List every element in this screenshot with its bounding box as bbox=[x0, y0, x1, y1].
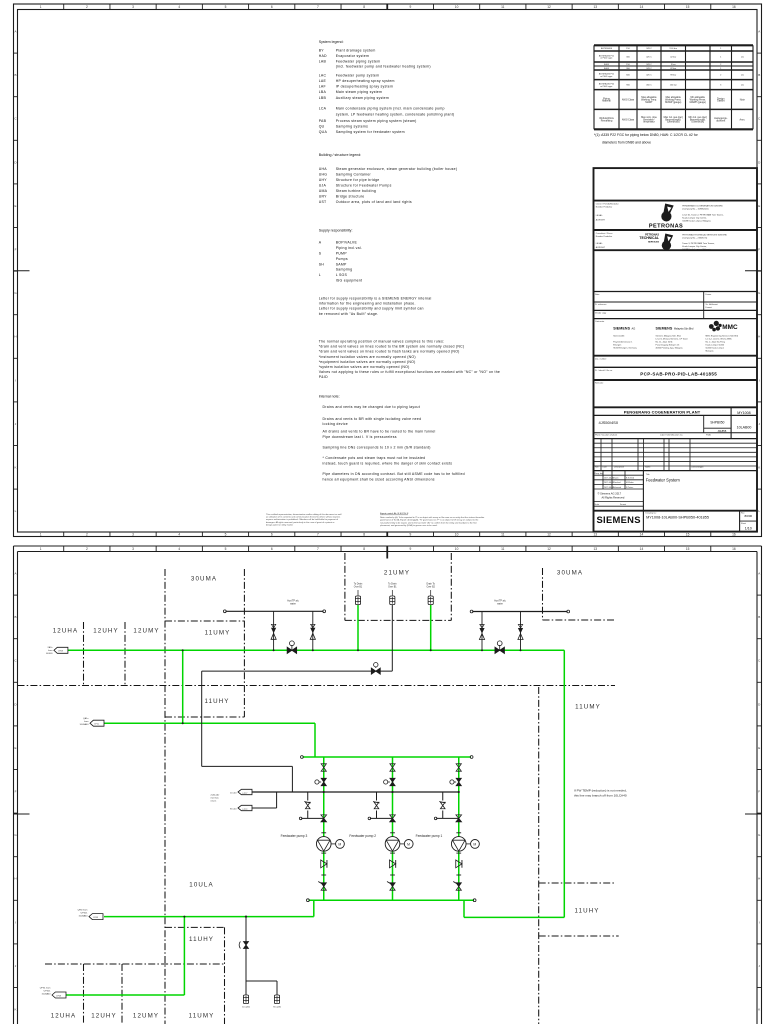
svg-text:9: 9 bbox=[409, 547, 411, 551]
svg-text:PENGERANG COGENERATION SDN BHD: PENGERANG COGENERATION SDN BHD bbox=[682, 205, 723, 208]
svg-text:LCA: LCA bbox=[319, 107, 327, 111]
svg-text:QA1x: QA1x bbox=[83, 717, 89, 720]
svg-text:F: F bbox=[758, 790, 760, 794]
svg-text:E: E bbox=[14, 204, 16, 208]
svg-text:PAB: PAB bbox=[319, 119, 327, 123]
svg-text:Checked/appr.: Checked/appr. bbox=[691, 467, 704, 469]
svg-text:K: K bbox=[14, 1008, 16, 1012]
svg-text:be removed with "As Built" sta: be removed with "As Built" stage. bbox=[319, 312, 379, 316]
svg-text:LAC: LAC bbox=[319, 73, 327, 77]
min-flow tap junction train 1 bbox=[458, 791, 460, 793]
svg-text:Remarking: Remarking bbox=[601, 120, 613, 123]
LP72 arrow label + line bbox=[238, 805, 252, 810]
svg-text:Malaysia: Malaysia bbox=[706, 351, 715, 353]
motor 2 bbox=[400, 843, 405, 845]
svg-text:E: E bbox=[758, 204, 760, 208]
svg-text:Nombor Pendaftar: Nombor Pendaftar bbox=[596, 235, 613, 238]
svg-text:M: M bbox=[338, 842, 341, 846]
svg-text:12: 12 bbox=[547, 5, 551, 9]
svg-text:temperatur: temperatur bbox=[643, 121, 655, 124]
svg-text:Owner / Pemilik/Berdaftar: Owner / Pemilik/Berdaftar bbox=[596, 203, 619, 206]
svg-text:SIEMENS: SIEMENS bbox=[613, 327, 630, 331]
svg-text:Sampling line DNs corresponds: Sampling line DNs corresponds to 10 x 2 … bbox=[323, 446, 431, 450]
flange below pump 3 bbox=[321, 852, 326, 854]
feedwater pump train 3 bbox=[323, 757, 325, 900]
svg-text:Kuala Lumpur 50450: Kuala Lumpur 50450 bbox=[706, 345, 725, 347]
svg-text:E: E bbox=[14, 746, 16, 750]
svg-text:12: 12 bbox=[547, 532, 551, 536]
svg-text:*drain and vent valves on line: *drain and vent valves on lines routed t… bbox=[319, 345, 465, 349]
svg-text:K.Peters: K.Peters bbox=[626, 486, 633, 489]
svg-text:UMA: UMA bbox=[319, 189, 328, 193]
svg-text:2x40-QD: 2x40-QD bbox=[211, 794, 220, 796]
svg-text:B: B bbox=[758, 615, 760, 619]
svg-text:Material: Material bbox=[602, 100, 611, 103]
valve on drain line bbox=[371, 668, 380, 674]
svg-text:SHPB050: SHPB050 bbox=[710, 420, 724, 424]
min-flow tap junction train 2 bbox=[391, 791, 393, 793]
svg-text:30UMA: 30UMA bbox=[557, 570, 583, 577]
svg-text:7: 7 bbox=[317, 5, 319, 9]
svg-text:1: 1 bbox=[40, 547, 42, 551]
svg-text:Sheet: Sheet bbox=[741, 522, 746, 525]
svg-text:(Uberdruck): (Uberdruck) bbox=[691, 121, 704, 124]
flange train 1 b bbox=[456, 874, 461, 876]
svg-text:UPS21: UPS21 bbox=[81, 913, 89, 915]
warm-up branch train 3 bbox=[307, 792, 309, 801]
svg-text:3: 3 bbox=[132, 5, 134, 9]
svg-text:M.Weber: M.Weber bbox=[626, 481, 634, 484]
svg-text:LAE: LAE bbox=[319, 79, 327, 83]
long horizontal boundary bbox=[18, 685, 616, 687]
svg-text:50450 Kuala Lumpur: 50450 Kuala Lumpur bbox=[706, 348, 725, 350]
svg-text:express authorisation is prohi: express authorisation is prohibited. Off… bbox=[266, 518, 338, 521]
svg-text:non-lawful entity to be export: non-lawful entity to be export, and to t… bbox=[380, 521, 477, 524]
svg-text:(Uberdruck): (Uberdruck) bbox=[667, 121, 680, 124]
svg-text:19.6 bar: 19.6 bar bbox=[669, 47, 677, 50]
svg-text:6: 6 bbox=[271, 532, 273, 536]
svg-text:or P&ID appr.: or P&ID appr. bbox=[600, 57, 613, 60]
svg-text:15: 15 bbox=[686, 547, 690, 551]
svg-text:42 bar: 42 bar bbox=[670, 56, 676, 59]
svg-text:LAB: LAB bbox=[319, 59, 327, 63]
svg-text:Description: Description bbox=[614, 466, 624, 469]
warm-up branch train 1 bbox=[442, 792, 444, 801]
svg-text:TECHNICAL: TECHNICAL bbox=[639, 236, 659, 240]
check valve train 3 bbox=[321, 860, 327, 868]
flange below pump 1 bbox=[456, 852, 461, 854]
svg-text:13: 13 bbox=[593, 5, 597, 9]
svg-text:Resp. dep.: Resp. dep. bbox=[595, 473, 605, 475]
svg-text:12UHY: 12UHY bbox=[91, 1013, 116, 1020]
svg-text:15: 15 bbox=[686, 5, 690, 9]
svg-text:A106: A106 bbox=[604, 63, 610, 66]
svg-text:Letter for supply responsibili: Letter for supply responsibility and sup… bbox=[319, 307, 424, 311]
svg-text:A: A bbox=[14, 572, 16, 576]
svg-text:50088 Kuala Lumpur, Malaysia: 50088 Kuala Lumpur, Malaysia bbox=[682, 248, 711, 251]
svg-text:H: H bbox=[14, 335, 16, 339]
line A vertical to discharge bbox=[563, 650, 565, 917]
svg-text:placement; and governed by (US: placement; and governed by (USA) to gove… bbox=[380, 524, 438, 527]
svg-text:/01855: /01855 bbox=[718, 429, 727, 433]
svg-text:System legend:: System legend: bbox=[319, 40, 344, 44]
svg-text:HP desuperheating spray system: HP desuperheating spray system bbox=[336, 79, 395, 83]
svg-text:SERVICES: SERVICES bbox=[648, 242, 660, 244]
svg-text:8: 8 bbox=[363, 547, 365, 551]
svg-text:12UHY: 12UHY bbox=[93, 628, 118, 635]
svg-text:Kuala Lumpur City Centre,: Kuala Lumpur City Centre, bbox=[682, 245, 707, 248]
svg-text:343 C: 343 C bbox=[646, 68, 652, 70]
svg-text:No. 2, Jalan Kia Peng: No. 2, Jalan Kia Peng bbox=[706, 342, 725, 344]
svg-text:A: A bbox=[758, 30, 760, 34]
svg-text:Over B1: Over B1 bbox=[354, 585, 363, 588]
svg-text:Note:: Note: bbox=[595, 293, 600, 296]
svg-text:UHA: UHA bbox=[319, 167, 328, 171]
svg-text:Consultant / Perun: Consultant / Perun bbox=[596, 232, 613, 235]
svg-text:21UMY: 21UMY bbox=[384, 570, 410, 577]
svg-text:To Drain: To Drain bbox=[354, 582, 363, 585]
svg-text:425 C: 425 C bbox=[646, 75, 652, 77]
discharge gate valve train 1 bbox=[456, 883, 461, 890]
svg-text:*drain and vent valves on line: *drain and vent valves on lines routed t… bbox=[319, 350, 460, 354]
svg-text:K: K bbox=[758, 1008, 760, 1012]
svg-text:3: 3 bbox=[132, 532, 134, 536]
line C to left bbox=[104, 916, 314, 918]
left header drop valves bbox=[273, 611, 275, 650]
min flow return manifold bbox=[252, 791, 459, 793]
svg-text:Siemens AG: Siemens AG bbox=[613, 335, 625, 338]
svg-text:Contractor: Contractor bbox=[595, 320, 605, 323]
svg-text:3: 3 bbox=[132, 547, 134, 551]
bottom row: SIEMENS logo + drawing number bbox=[739, 511, 741, 532]
blowdown funnels bbox=[243, 995, 248, 1004]
svg-text:4: 4 bbox=[178, 532, 180, 536]
petronas technical services block bbox=[662, 234, 673, 251]
svg-text:BY: BY bbox=[319, 48, 325, 52]
isolation valve train 2 bbox=[390, 764, 395, 771]
svg-text:10: 10 bbox=[455, 547, 459, 551]
svg-text:Rev: Rev bbox=[595, 467, 599, 469]
svg-text:Level 61, Tower 2, PETRONAS Tw: Level 61, Tower 2, PETRONAS Twin Towers, bbox=[682, 214, 724, 217]
svg-text:Note: Note bbox=[740, 99, 746, 102]
svg-text:Vendor copy: Vendor copy bbox=[595, 313, 606, 315]
svg-text:4: 4 bbox=[178, 547, 180, 551]
svg-text:Sampling: Sampling bbox=[336, 268, 353, 272]
svg-text:Drawn: Drawn bbox=[613, 477, 618, 480]
svg-text:F: F bbox=[15, 248, 17, 252]
svg-text:design patent or utility model: design patent or utility model. bbox=[266, 524, 293, 527]
svg-text:Sc. file/format: Sc. file/format bbox=[706, 303, 719, 306]
discharge manifold bbox=[309, 899, 475, 901]
svg-text:Tower 3, PETRONAS Twin Towers,: Tower 3, PETRONAS Twin Towers, bbox=[682, 242, 715, 245]
svg-text:16: 16 bbox=[732, 5, 736, 9]
riser to pump discharge manifold right bbox=[463, 900, 465, 917]
21UMY funnel 1 (to drain) bbox=[355, 596, 360, 605]
svg-text:LAF: LAF bbox=[319, 84, 326, 88]
svg-text:1LCQ50: 1LCQ50 bbox=[242, 1006, 251, 1008]
svg-text:K: K bbox=[758, 466, 760, 470]
svg-text:Evaporator system: Evaporator system bbox=[336, 54, 369, 58]
svg-text:PETRONAS: PETRONAS bbox=[649, 223, 683, 229]
svg-text:(Company No. - 1093824-K): (Company No. - 1093824-K) bbox=[682, 209, 708, 211]
svg-text:10ULA: 10ULA bbox=[189, 882, 213, 889]
min-flow tap junction train 3 bbox=[323, 791, 325, 793]
motor operated valve train 3 bbox=[321, 778, 326, 785]
svg-text:Main steam piping system: Main steam piping system bbox=[336, 90, 382, 94]
svg-text:locking device: locking device bbox=[323, 422, 348, 426]
svg-text:or P&ID appr.: or P&ID appr. bbox=[600, 75, 613, 78]
svg-text:13: 13 bbox=[593, 532, 597, 536]
drain risers from 21UMY funnels bbox=[357, 605, 359, 651]
svg-text:10LBA40: 10LBA40 bbox=[41, 993, 51, 996]
svg-text:QRD from: QRD from bbox=[78, 909, 88, 912]
svg-text:9: 9 bbox=[409, 532, 411, 536]
motor operated valve train 1 bbox=[456, 778, 461, 785]
svg-text:Malaysia Sdn Bhd: Malaysia Sdn Bhd bbox=[674, 328, 694, 331]
aux water header left bbox=[226, 610, 324, 612]
svg-text:min flow: min flow bbox=[211, 797, 219, 799]
feedwater pump train 1 bbox=[458, 757, 460, 900]
svg-text:Internal note:: Internal note: bbox=[319, 394, 340, 398]
junction nodes on line A bbox=[273, 649, 275, 651]
discharge manifold left elbow bbox=[313, 900, 315, 916]
svg-text:Sampling Container: Sampling Container bbox=[336, 173, 372, 177]
pump 3 bbox=[316, 837, 331, 852]
svg-text:ISG equipment: ISG equipment bbox=[336, 279, 363, 283]
MMC logo bbox=[709, 321, 722, 332]
svg-text:10: 10 bbox=[455, 5, 459, 9]
svg-text:SIEMENS: SIEMENS bbox=[597, 514, 641, 525]
svg-text:1: 1 bbox=[40, 5, 42, 9]
svg-text:QUA: QUA bbox=[319, 130, 328, 134]
svg-text:7: 7 bbox=[317, 547, 319, 551]
svg-text:Scale: Scale bbox=[595, 504, 600, 506]
svg-text:6: 6 bbox=[271, 5, 273, 9]
svg-text:LP1x: LP1x bbox=[94, 724, 99, 726]
svg-text:Feedwater pump 2: Feedwater pump 2 bbox=[349, 834, 376, 838]
svg-text:2: 2 bbox=[86, 532, 88, 536]
svg-text:46350 Petaling Jaya, Malaysia: 46350 Petaling Jaya, Malaysia bbox=[656, 347, 684, 350]
line E source label bbox=[52, 992, 66, 998]
21UMY funnel 3 bbox=[428, 596, 433, 605]
svg-text:30UMA: 30UMA bbox=[191, 576, 217, 583]
border frame bbox=[14, 545, 762, 547]
svg-text:QU: QU bbox=[319, 124, 325, 128]
revision table bbox=[594, 442, 758, 444]
svg-text:425 C: 425 C bbox=[646, 57, 652, 59]
svg-text:Steam turbine building: Steam turbine building bbox=[336, 189, 376, 193]
svg-text:Sampling systems: Sampling systems bbox=[336, 124, 368, 128]
11UHY box bottom bbox=[165, 716, 244, 718]
svg-text:All Rights Reserved: All Rights Reserved bbox=[602, 496, 625, 500]
svg-text:PUMP: PUMP bbox=[336, 251, 348, 255]
svg-text:98 bar: 98 bar bbox=[670, 74, 676, 77]
svg-text:PCP-SAB-PRO-PID-LAB-401855: PCP-SAB-PRO-PID-LAB-401855 bbox=[640, 372, 717, 377]
svg-text:8: 8 bbox=[363, 5, 365, 9]
piping class table bbox=[594, 44, 753, 46]
drain line from funnel 2 bbox=[391, 605, 393, 672]
svg-text:9 bar: 9 bar bbox=[671, 63, 676, 66]
flange train 2 b bbox=[390, 874, 395, 876]
svg-text:Label / identification no.: Label / identification no. bbox=[660, 433, 683, 436]
svg-text:LBB: LBB bbox=[319, 96, 327, 100]
svg-text:UHY: UHY bbox=[319, 178, 328, 182]
note / frame row bbox=[703, 292, 705, 319]
svg-text:LEGAL:: LEGAL: bbox=[596, 214, 603, 217]
svg-text:P&ID: P&ID bbox=[706, 434, 712, 436]
svg-text:Drawing no.:: Drawing no.: bbox=[646, 513, 658, 515]
svg-text:4: 4 bbox=[178, 5, 180, 9]
svg-text:PETRONAS TECHNICAL SERVICES SD: PETRONAS TECHNICAL SERVICES SDN BHD bbox=[682, 234, 727, 237]
svg-text:hence all equipment shall be s: hence all equipment shall be sized accor… bbox=[323, 477, 435, 481]
svg-text:LEGAL:: LEGAL: bbox=[596, 242, 603, 245]
border frame bbox=[14, 4, 762, 537]
svg-text:(incl. feedwater pump and feed: (incl. feedwater pump and feedwater heat… bbox=[336, 65, 431, 69]
svg-text:Nombor Pendaftar: Nombor Pendaftar bbox=[596, 206, 613, 209]
svg-text:1/10: 1/10 bbox=[745, 526, 752, 530]
svg-text:Feedwater pump 3: Feedwater pump 3 bbox=[281, 834, 308, 838]
boundary 30UMA-left box bbox=[164, 569, 166, 1024]
svg-text:UHG: UHG bbox=[319, 173, 328, 177]
svg-text:water: water bbox=[290, 603, 296, 606]
svg-text:14: 14 bbox=[640, 5, 644, 9]
svg-text:11UMY: 11UMY bbox=[575, 704, 601, 711]
21UMY funnel 2 bbox=[390, 596, 395, 605]
title block outline bbox=[594, 168, 758, 531]
svg-text:All drains and vents to BR hav: All drains and vents to BR have to be ro… bbox=[323, 430, 436, 434]
svg-text:Pipe diameters in DN according: Pipe diameters in DN according contract.… bbox=[323, 472, 465, 476]
check valve train 1 bbox=[456, 860, 462, 868]
svg-text:Format: Format bbox=[620, 503, 626, 506]
svg-text:Process steam system piping sy: Process steam system piping system (stea… bbox=[336, 119, 417, 123]
svg-text:Plant / location of plant: Plant / location of plant bbox=[595, 433, 618, 436]
svg-text:14: 14 bbox=[640, 547, 644, 551]
svg-text:(1): (1) bbox=[741, 85, 744, 87]
svg-text:343 C: 343 C bbox=[646, 64, 652, 66]
suction manifold bbox=[303, 756, 472, 758]
separators 12UHA/12UHY/12UMY top bbox=[83, 622, 85, 686]
svg-text:Name: Name bbox=[645, 467, 651, 469]
svg-text:dichtheit: dichtheit bbox=[716, 120, 725, 123]
svg-text:Piping incl.val.: Piping incl.val. bbox=[336, 246, 362, 250]
svg-text:(Company No. - 233287-X): (Company No. - 233287-X) bbox=[682, 237, 707, 239]
svg-text:Main condensate piping system: Main condensate piping system (incl. mai… bbox=[336, 107, 445, 111]
svg-text:M: M bbox=[407, 842, 410, 846]
svg-text:as utilisation of its contents: as utilisation of its contents and commu… bbox=[266, 516, 340, 519]
svg-text:B: B bbox=[758, 73, 760, 77]
svg-text:damages. All rights reserved,: damages. All rights reserved, particular… bbox=[266, 521, 335, 524]
feedwater pump train 2 bbox=[392, 757, 394, 900]
svg-text:A: A bbox=[14, 30, 16, 34]
discharge gate valve train 3 bbox=[321, 883, 326, 890]
svg-text:4JS50/4S0: 4JS50/4S0 bbox=[599, 420, 619, 425]
branch down from C bbox=[183, 917, 185, 995]
motor operated valve train 2 bbox=[390, 778, 395, 785]
svg-text:URY: URY bbox=[319, 194, 327, 198]
discharge gate valve train 2 bbox=[390, 883, 395, 890]
svg-text:L SGS: L SGS bbox=[336, 273, 348, 277]
svg-text:Pusat Dagang Seksyen 16: Pusat Dagang Seksyen 16 bbox=[656, 344, 681, 347]
svg-text:HAD: HAD bbox=[319, 54, 327, 58]
svg-text:Plant drainage system: Plant drainage system bbox=[336, 48, 376, 52]
svg-text:Over B2: Over B2 bbox=[426, 585, 435, 588]
svg-text:11UHY: 11UHY bbox=[575, 908, 600, 915]
svg-text:Sampling system for feedwater: Sampling system for feedwater system bbox=[336, 130, 405, 134]
svg-text:Pr. reference: Pr. reference bbox=[595, 304, 607, 306]
svg-text:A106: A106 bbox=[604, 67, 610, 70]
svg-text:Drain To: Drain To bbox=[426, 582, 435, 585]
svg-text:governance of the AL Export: d: governance of the AL Export: destiny(ght… bbox=[380, 519, 479, 522]
svg-text:A: A bbox=[319, 240, 322, 244]
svg-text:Supply responsibility:: Supply responsibility: bbox=[319, 229, 353, 233]
svg-text:Auxiliary steam piping system: Auxiliary steam piping system bbox=[336, 96, 389, 100]
right header drop valves bbox=[481, 612, 483, 651]
svg-text:450 C: 450 C bbox=[646, 85, 652, 87]
svg-text:E: E bbox=[758, 746, 760, 750]
svg-text:IP desuperheating spray system: IP desuperheating spray system bbox=[336, 84, 393, 88]
svg-text:5: 5 bbox=[225, 532, 227, 536]
svg-text:12: 12 bbox=[547, 547, 551, 551]
bottom-left boundaries bbox=[165, 926, 225, 928]
svg-text:MAWT: MAWT bbox=[645, 101, 653, 104]
isolation valve train 3 bbox=[321, 764, 326, 771]
svg-text:This certified representatio: This certified representation, dissemina… bbox=[266, 513, 342, 516]
LP77 arrow label bbox=[238, 789, 252, 794]
svg-text:Feedwater pump 1: Feedwater pump 1 bbox=[416, 834, 443, 838]
svg-text:2: 2 bbox=[86, 547, 88, 551]
svg-text:MMC Engineering Services Sdn B: MMC Engineering Services Sdn Bhd bbox=[706, 336, 738, 338]
isolation valve train 1 bbox=[456, 764, 461, 771]
svg-text:Feedwater pump system: Feedwater pump system bbox=[336, 73, 380, 77]
svg-text:5: 5 bbox=[225, 547, 227, 551]
valve on blowdown bbox=[244, 942, 249, 949]
svg-text:Drains and vents may be change: Drains and vents may be changed due to p… bbox=[323, 405, 420, 409]
svg-text:LBA: LBA bbox=[319, 90, 327, 94]
svg-text:To Drain: To Drain bbox=[388, 582, 397, 585]
flange train 3 bbox=[321, 832, 326, 834]
svg-text:8: 8 bbox=[363, 532, 365, 536]
svg-text:Gasket: Gasket bbox=[717, 100, 725, 103]
svg-text:11: 11 bbox=[501, 532, 505, 536]
svg-text:Drains and vents to BR with si: Drains and vents to BR with single isola… bbox=[323, 417, 422, 421]
centre fold marks bbox=[14, 813, 30, 815]
svg-text:Structure for pipe bridge: Structure for pipe bridge bbox=[336, 178, 380, 182]
svg-text:information for the engineerin: information for the engineering and inst… bbox=[319, 302, 416, 306]
plant title row bbox=[730, 407, 732, 438]
svg-text:PENGERANG COGENERATION PLANT: PENGERANG COGENERATION PLANT bbox=[624, 410, 701, 415]
svg-text:91058 Erlangen, Germany: 91058 Erlangen, Germany bbox=[613, 348, 636, 350]
svg-text:Frame: Frame bbox=[706, 294, 713, 296]
svg-text:B: B bbox=[14, 615, 16, 619]
svg-text:B: B bbox=[14, 73, 16, 77]
svg-text:5: 5 bbox=[225, 5, 227, 9]
svg-text:152 bar: 152 bar bbox=[670, 84, 677, 87]
svg-text:11UMY: 11UMY bbox=[189, 1013, 215, 1020]
discharge check/stop valve train 2 bbox=[390, 815, 396, 822]
svg-text:Valves not applying to these r: Valves not applying to these rules or fu… bbox=[319, 370, 500, 374]
svg-text:UPS1 from: UPS1 from bbox=[40, 987, 51, 990]
svg-text:* Condensate pots and steam tr: * Condensate pots and steam traps must n… bbox=[323, 456, 426, 460]
svg-text:Released: Released bbox=[613, 487, 621, 489]
svg-text:BOP/VALVE: BOP/VALVE bbox=[336, 240, 358, 244]
svg-text:6: 6 bbox=[271, 547, 273, 551]
svg-text:from: from bbox=[48, 649, 53, 652]
suction line B bbox=[104, 722, 315, 724]
svg-text:12UHA: 12UHA bbox=[53, 628, 78, 635]
svg-text:SH: SH bbox=[319, 262, 325, 266]
svg-text:Feedwater System: Feedwater System bbox=[646, 477, 681, 482]
svg-text:P&ID: P&ID bbox=[319, 375, 328, 379]
